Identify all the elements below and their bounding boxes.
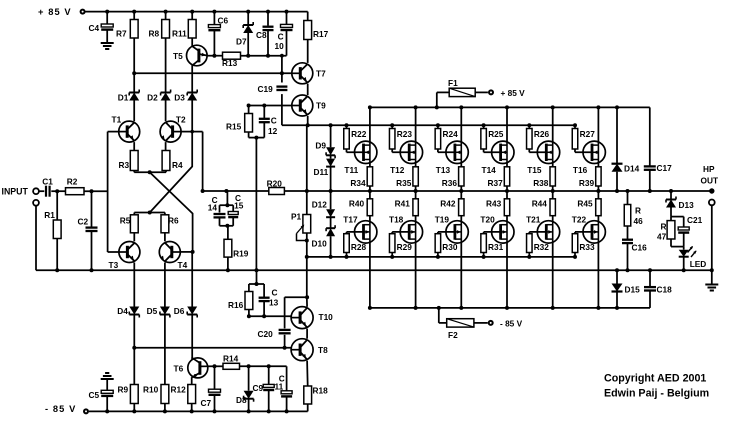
svg-text:R31: R31: [488, 242, 504, 252]
svg-text:Edwin Paij - Belgium: Edwin Paij - Belgium: [604, 387, 709, 399]
svg-text:C6: C6: [218, 15, 229, 25]
svg-text:T20: T20: [480, 215, 495, 225]
svg-text:R27: R27: [580, 129, 596, 139]
svg-text:47: 47: [657, 231, 667, 241]
svg-text:R17: R17: [313, 29, 329, 39]
svg-text:D3: D3: [174, 92, 185, 102]
svg-text:R5: R5: [120, 216, 131, 226]
svg-text:R13: R13: [222, 58, 238, 68]
svg-text:11: 11: [275, 382, 284, 392]
svg-text:D10: D10: [312, 239, 328, 249]
svg-text:R44: R44: [532, 199, 548, 209]
svg-text:C9: C9: [253, 383, 264, 393]
svg-text:R11: R11: [172, 29, 187, 39]
svg-text:D12: D12: [312, 200, 328, 210]
svg-text:R4: R4: [172, 160, 183, 170]
svg-text:INPUT: INPUT: [2, 186, 29, 196]
svg-text:C: C: [271, 116, 277, 126]
svg-text:D9: D9: [315, 140, 326, 150]
svg-text:R39: R39: [579, 178, 595, 188]
svg-text:R2: R2: [67, 177, 78, 187]
svg-text:R7: R7: [116, 29, 127, 39]
svg-text:13: 13: [269, 297, 279, 307]
svg-text:R6: R6: [168, 216, 179, 226]
svg-text:R14: R14: [223, 353, 239, 363]
svg-text:R8: R8: [149, 29, 160, 39]
svg-text:R30: R30: [442, 242, 458, 252]
svg-text:R41: R41: [395, 199, 411, 209]
svg-text:R: R: [661, 221, 667, 231]
svg-text:T5: T5: [173, 51, 183, 61]
svg-text:T16: T16: [573, 165, 588, 175]
svg-text:D4: D4: [117, 306, 128, 316]
svg-text:C4: C4: [89, 23, 100, 33]
svg-text:R20: R20: [267, 179, 283, 189]
svg-text:R1: R1: [44, 210, 55, 220]
svg-text:R16: R16: [228, 300, 244, 310]
svg-text:12: 12: [268, 126, 278, 136]
svg-text:T9: T9: [316, 101, 326, 111]
svg-text:D6: D6: [174, 306, 185, 316]
svg-text:OUT: OUT: [701, 176, 719, 186]
svg-text:C8: C8: [256, 30, 267, 40]
svg-text:T12: T12: [390, 165, 405, 175]
svg-text:- 85 V: - 85 V: [45, 404, 76, 414]
svg-text:10: 10: [275, 41, 285, 51]
svg-text:C7: C7: [201, 398, 212, 408]
svg-text:T1: T1: [112, 114, 122, 124]
svg-text:R36: R36: [442, 178, 458, 188]
svg-text:C5: C5: [89, 390, 100, 400]
svg-text:14: 14: [208, 202, 218, 212]
svg-text:T19: T19: [435, 215, 450, 225]
svg-text:C1: C1: [42, 177, 53, 187]
svg-text:R12: R12: [171, 384, 187, 394]
svg-text:R15: R15: [226, 122, 242, 132]
svg-text:R29: R29: [397, 242, 413, 252]
svg-text:R19: R19: [233, 248, 249, 258]
svg-text:C17: C17: [657, 163, 673, 173]
svg-text:R32: R32: [534, 242, 550, 252]
svg-text:R25: R25: [488, 129, 504, 139]
svg-text:R38: R38: [533, 178, 549, 188]
svg-text:R37: R37: [488, 178, 504, 188]
svg-text:R: R: [635, 205, 641, 215]
svg-text:15: 15: [234, 201, 244, 211]
svg-text:C16: C16: [632, 243, 648, 253]
svg-text:T4: T4: [178, 260, 188, 270]
svg-text:F1: F1: [448, 78, 458, 88]
svg-text:R3: R3: [119, 160, 130, 170]
svg-text:- 85 V: - 85 V: [500, 318, 523, 328]
svg-text:D8: D8: [236, 395, 247, 405]
svg-text:T18: T18: [389, 215, 404, 225]
svg-text:T22: T22: [572, 215, 587, 225]
svg-text:Copyright AED 2001: Copyright AED 2001: [604, 373, 706, 385]
svg-text:T11: T11: [344, 165, 358, 175]
svg-text:T14: T14: [482, 165, 497, 175]
svg-text:D7: D7: [236, 37, 247, 47]
svg-text:D13: D13: [679, 200, 695, 210]
svg-text:T8: T8: [318, 345, 328, 355]
svg-text:R33: R33: [579, 242, 595, 252]
svg-text:P1: P1: [291, 212, 302, 222]
svg-text:T15: T15: [527, 165, 542, 175]
svg-text:R34: R34: [350, 178, 366, 188]
svg-text:R24: R24: [443, 129, 459, 139]
svg-text:R9: R9: [118, 384, 129, 394]
svg-text:T10: T10: [319, 312, 334, 322]
svg-text:C21: C21: [687, 215, 703, 225]
svg-text:C19: C19: [258, 84, 274, 94]
svg-text:C2: C2: [78, 216, 89, 226]
svg-text:T2: T2: [176, 115, 186, 125]
svg-text:C18: C18: [657, 285, 673, 295]
svg-text:T13: T13: [436, 165, 451, 175]
svg-text:R10: R10: [143, 384, 159, 394]
svg-text:D2: D2: [147, 92, 158, 102]
svg-text:T7: T7: [316, 69, 326, 79]
svg-text:HP: HP: [703, 164, 715, 174]
svg-text:F2: F2: [448, 330, 458, 340]
svg-text:46: 46: [634, 216, 644, 226]
svg-text:T17: T17: [343, 215, 358, 225]
svg-text:C20: C20: [258, 329, 274, 339]
svg-text:T3: T3: [109, 260, 119, 270]
svg-text:R45: R45: [577, 199, 593, 209]
svg-text:+ 85 V: + 85 V: [38, 7, 72, 17]
svg-text:R18: R18: [313, 386, 329, 396]
svg-text:+ 85 V: + 85 V: [501, 88, 526, 98]
svg-text:T6: T6: [174, 363, 184, 373]
svg-text:R23: R23: [397, 129, 413, 139]
svg-text:R22: R22: [351, 129, 367, 139]
svg-text:T21: T21: [526, 215, 541, 225]
svg-text:D11: D11: [314, 167, 329, 177]
svg-text:D15: D15: [625, 285, 641, 295]
svg-text:R35: R35: [396, 178, 412, 188]
svg-text:R28: R28: [351, 242, 367, 252]
svg-text:R43: R43: [486, 199, 502, 209]
svg-text:R26: R26: [534, 129, 550, 139]
svg-text:R40: R40: [349, 199, 365, 209]
svg-text:R42: R42: [440, 199, 456, 209]
svg-text:D14: D14: [624, 164, 640, 174]
svg-text:D1: D1: [118, 92, 129, 102]
svg-text:C: C: [272, 288, 278, 298]
svg-text:D5: D5: [147, 306, 158, 316]
svg-text:LED: LED: [690, 259, 707, 269]
